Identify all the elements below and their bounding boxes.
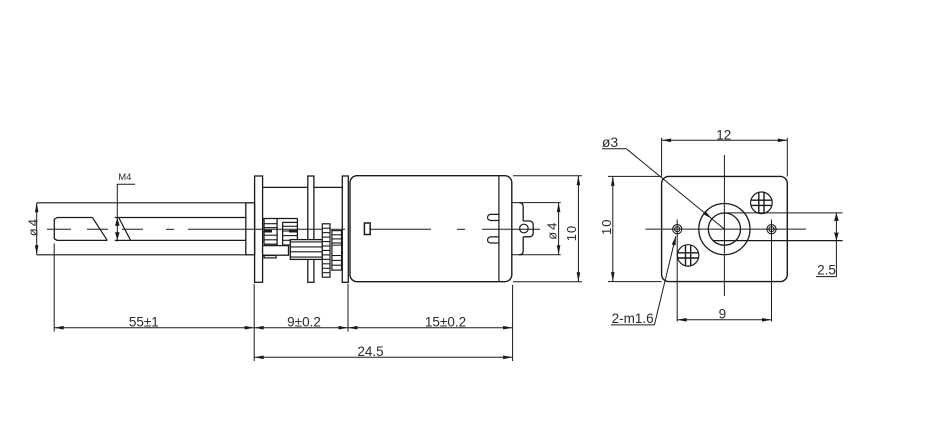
svg-text:12: 12 — [716, 127, 731, 142]
dimension ø4 (left, boss diameter) — [25, 203, 40, 255]
motor end cap joint line — [498, 176, 500, 281]
output boss circle — [699, 204, 750, 255]
svg-text:55±1: 55±1 — [129, 314, 159, 329]
carrier bottom step — [264, 256, 276, 258]
gearbox top rails — [263, 186, 343, 188]
face view body (gearbox face plate) — [662, 176, 788, 281]
terminal hole — [520, 224, 529, 233]
output shaft circle ø3 — [708, 213, 740, 245]
rear boss / terminal block — [519, 203, 533, 255]
centerline (side view, horizontal axis) — [47, 228, 540, 230]
face view vertical centerline — [723, 155, 725, 296]
svg-text:ø4: ø4 — [544, 221, 559, 240]
dimension 12 (face width) — [662, 127, 788, 176]
svg-text:ø3: ø3 — [602, 134, 619, 150]
dimension 9 (hole spacing) — [677, 307, 771, 322]
svg-text:10: 10 — [599, 219, 614, 235]
thread runout diagonal 1 — [92, 218, 107, 241]
dimension 10 (face height) — [599, 176, 662, 281]
motor body — [350, 176, 512, 282]
dimension 15±0.2 (motor length) — [348, 314, 513, 329]
tapped hole m1.6 (right) — [767, 220, 776, 322]
motor front bearing detail — [364, 223, 370, 235]
svg-text:10: 10 — [564, 225, 579, 241]
svg-text:2-m1.6: 2-m1.6 — [612, 311, 654, 326]
end cap crimp tab upper — [488, 214, 499, 220]
extension line at shaft end — [53, 244, 55, 332]
extension line at gearbox front — [253, 284, 255, 361]
extension line at motor rear — [512, 285, 514, 361]
svg-text:9: 9 — [719, 307, 727, 322]
label M4 with leader — [115, 172, 135, 241]
end cap crimp tab lower — [488, 237, 499, 243]
dimension 24.5 (gearbox+motor length) — [254, 344, 512, 359]
shaft D-flat chord / 2.5 extension line — [713, 240, 843, 242]
svg-text:2.5: 2.5 — [817, 263, 836, 278]
label ø3 with leader — [602, 134, 725, 229]
svg-text:24.5: 24.5 — [357, 344, 383, 359]
tapped hole m1.6 (left) — [673, 220, 682, 322]
svg-text:M4: M4 — [118, 172, 131, 183]
output gear hub teeth (ladder) — [322, 224, 330, 277]
gear carrier block — [263, 246, 289, 256]
output gear (large final gear) — [290, 240, 322, 260]
gearbox rear plate — [342, 176, 348, 282]
shaft top tangent / 2.5 extension line — [725, 212, 843, 214]
label 2-m1.6 with leader — [611, 236, 676, 326]
svg-text:ø4: ø4 — [25, 217, 40, 236]
dimension ø4 (right, rear boss) — [512, 203, 561, 255]
gear stage 1 (first reduction gear) — [263, 219, 298, 246]
gear stage 2 (second reduction gear) — [283, 219, 298, 246]
gearbox middle plate — [308, 176, 314, 282]
gearbox front boss (collar) — [246, 203, 255, 255]
mounting screw (bottom left, phillips) — [677, 245, 698, 266]
gearbox front plate — [255, 176, 263, 282]
motor pinion stack — [332, 231, 342, 271]
svg-text:15±0.2: 15±0.2 — [425, 314, 466, 329]
face view horizontal centerline — [646, 228, 807, 230]
extension line at gearbox rear — [347, 284, 349, 332]
svg-text:9±0.2: 9±0.2 — [287, 314, 321, 329]
thread runout diagonal 2 — [119, 218, 131, 241]
mounting screw (top right, phillips) — [751, 192, 773, 214]
dimension 9±0.2 (gearbox length) — [254, 314, 348, 329]
dimension 2.5 (flat depth) — [816, 213, 839, 278]
dimension 55±1 (shaft length) — [54, 314, 254, 329]
dimension 10 (motor height, side view) — [513, 176, 582, 282]
front boss outline / ø4 extension lines — [37, 203, 246, 255]
shaft (M4 lead screw) outline — [54, 218, 246, 241]
